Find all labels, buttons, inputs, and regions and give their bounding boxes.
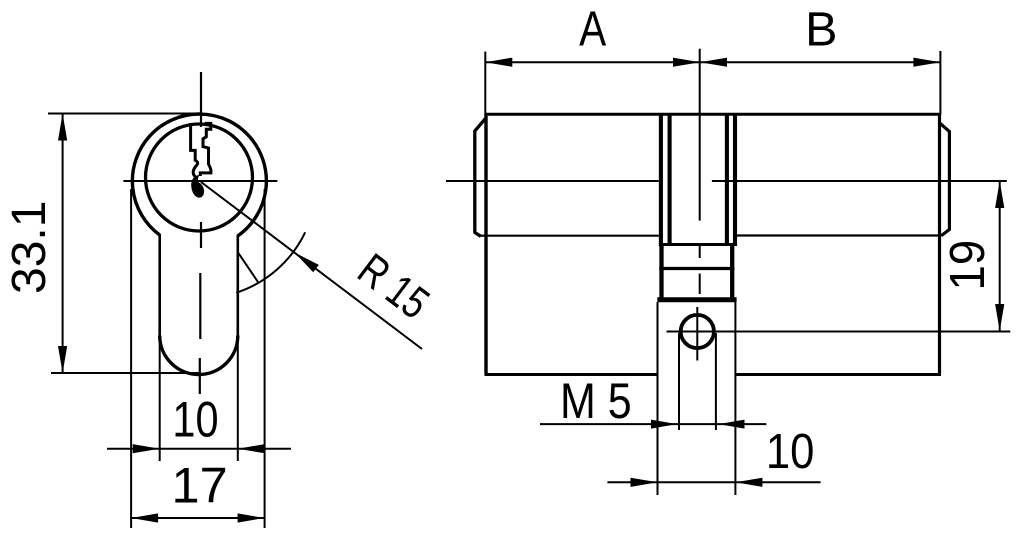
R15 arc — [236, 232, 305, 292]
cam ring bar 1 — [659, 116, 663, 244]
outer circle (cylinder barrel face, D17) — [132, 114, 266, 236]
cam ring bar 4 — [733, 116, 737, 244]
vertical center line dash (bottom) — [199, 358, 201, 394]
keyway left contour — [191, 123, 198, 178]
vertical chain line dash — [699, 245, 701, 258]
dimension 10 (left view) line — [107, 448, 291, 450]
keyway right contour — [200, 123, 211, 176]
dimension M5 line — [540, 423, 766, 425]
inner circle (plug face) — [146, 124, 253, 231]
hole vertical center line — [696, 307, 698, 361]
dimension 33.1 line — [62, 114, 64, 374]
dimension 19 arrow down — [995, 304, 1004, 331]
dimension 10 arrow right — [735, 478, 762, 487]
R15 radial hatch line — [238, 253, 259, 284]
dimension M5 arrow right — [719, 420, 745, 429]
profile body bottom arc (R5 rounded foot) — [160, 336, 238, 375]
dimension 33.1 arrow down — [58, 346, 67, 373]
dimension A arrow left — [485, 58, 512, 67]
R15 leader arrowhead at arc — [294, 252, 318, 272]
vertical center line dash crossing inner circle bottom — [200, 222, 202, 248]
dimension 19 arrow up — [995, 181, 1004, 208]
dimension B arrow right — [913, 58, 940, 67]
R15 leader line from keyway center — [201, 182, 422, 349]
cam ring bar 3 — [725, 116, 729, 244]
horizontal center line right barrel — [712, 180, 1007, 182]
vertical chain line dash — [699, 274, 701, 295]
cam upper box left wall — [659, 245, 663, 299]
profile body left side — [158, 234, 161, 336]
dimension 10 (right view) line — [607, 481, 820, 483]
dimension 19 line — [999, 181, 1001, 331]
horizontal center line left barrel — [446, 180, 659, 182]
vertical chain line of cam (top) — [699, 49, 701, 221]
dimension 17 arrow right — [238, 513, 265, 522]
profile body right side — [237, 235, 240, 336]
M5 screw hole — [681, 315, 714, 348]
body bottom edge right part — [735, 373, 941, 376]
hole horizontal center line + leader to 19 dim — [667, 331, 1011, 333]
body bottom edge left part — [485, 373, 658, 376]
svg-text:17: 17 — [172, 457, 228, 514]
cam ring bar 2 — [668, 116, 672, 244]
svg-text:10: 10 — [766, 424, 815, 479]
dimension 17 line — [131, 517, 265, 519]
cam middle line — [659, 267, 734, 270]
dimension B arrow left — [700, 58, 727, 67]
svg-text:10: 10 — [172, 391, 218, 448]
body right edge — [938, 114, 941, 375]
dimension 10 arrow left — [631, 478, 658, 487]
svg-text:A: A — [579, 1, 606, 56]
vertical center line (top) — [200, 72, 202, 127]
dimension 10 arrow right — [238, 444, 265, 453]
dimension 17 arrow left — [131, 513, 158, 522]
body left edge — [484, 114, 487, 375]
body top edge — [485, 113, 941, 116]
dimension 33.1 top extension line — [48, 113, 200, 115]
dimension M5 extension lines — [678, 333, 680, 430]
right end cap — [940, 124, 949, 236]
dimension M5 arrow left — [651, 420, 677, 429]
dimension 17 extension lines — [130, 189, 132, 528]
svg-text:M 5: M 5 — [560, 373, 632, 429]
cam thick bottom edge — [657, 297, 736, 302]
dimension 33.1 arrow up — [58, 114, 67, 141]
horizontal center line — [123, 180, 277, 182]
cam ring bottom line — [659, 243, 737, 246]
cam side left (below, object + extension for dim 10) — [657, 302, 659, 495]
dimension A/B line — [485, 61, 940, 63]
crease line right half — [737, 234, 942, 236]
svg-text:33.1: 33.1 — [3, 201, 56, 294]
extension line left (A) — [484, 52, 486, 115]
cam side right — [734, 302, 736, 495]
keyway bottom bulb — [192, 176, 203, 197]
dimension 33.1 bottom extension line — [51, 372, 200, 374]
svg-text:B: B — [805, 3, 837, 57]
cam upper box right wall — [730, 245, 734, 299]
extension line right (B) — [939, 51, 941, 115]
dimension 10 (left view) extension lines — [159, 338, 161, 461]
dimension A arrow right — [673, 58, 700, 67]
left end cap — [475, 117, 487, 236]
crease line left half (profile/barrel junction) — [479, 235, 659, 237]
vertical center line dash (middle of profile body) — [199, 273, 201, 339]
dimension 10 arrow left — [133, 444, 160, 453]
svg-text:19: 19 — [940, 240, 995, 291]
